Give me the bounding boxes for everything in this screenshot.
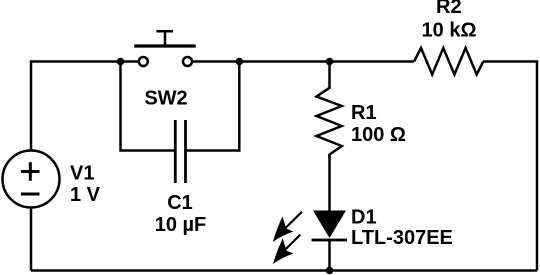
svg-text:100 Ω: 100 Ω xyxy=(351,124,406,146)
svg-text:V1: V1 xyxy=(70,163,94,185)
node R1 top junction xyxy=(326,58,334,66)
voltage source V1 xyxy=(3,151,60,208)
wire V1 bottom lead xyxy=(30,208,33,271)
pushbutton switch SW2 xyxy=(134,31,195,66)
resistor R2 xyxy=(414,48,483,75)
svg-text:D1: D1 xyxy=(351,207,377,229)
svg-text:10 kΩ: 10 kΩ xyxy=(422,19,477,41)
node left junction of SW2/C1 xyxy=(117,58,125,66)
LED D1 xyxy=(273,211,347,265)
node right junction of SW2/C1 xyxy=(236,58,244,66)
svg-text:R2: R2 xyxy=(436,0,462,18)
wire D1 bottom lead xyxy=(328,240,331,271)
svg-text:R1: R1 xyxy=(351,102,377,124)
resistor R1 xyxy=(317,62,342,159)
wire from SW2 right terminal to R2 xyxy=(193,60,414,63)
capacitor C1 xyxy=(175,120,185,183)
wire left branch down to capacitor xyxy=(121,62,175,151)
wire V1 top lead to top-left corner xyxy=(31,62,138,151)
svg-text:10 µF: 10 µF xyxy=(155,214,207,236)
svg-text:C1: C1 xyxy=(167,192,193,214)
svg-text:LTL-307EE: LTL-307EE xyxy=(351,227,453,249)
wire bottom rail xyxy=(31,269,537,272)
wire R2 right lead and right edge down xyxy=(483,62,537,271)
wire right branch from capacitor up to top wire xyxy=(187,62,240,151)
wire R1 to D1 xyxy=(328,155,331,211)
node bottom junction of D1 branch xyxy=(326,267,334,275)
svg-text:1 V: 1 V xyxy=(70,184,101,206)
svg-text:SW2: SW2 xyxy=(144,87,187,109)
